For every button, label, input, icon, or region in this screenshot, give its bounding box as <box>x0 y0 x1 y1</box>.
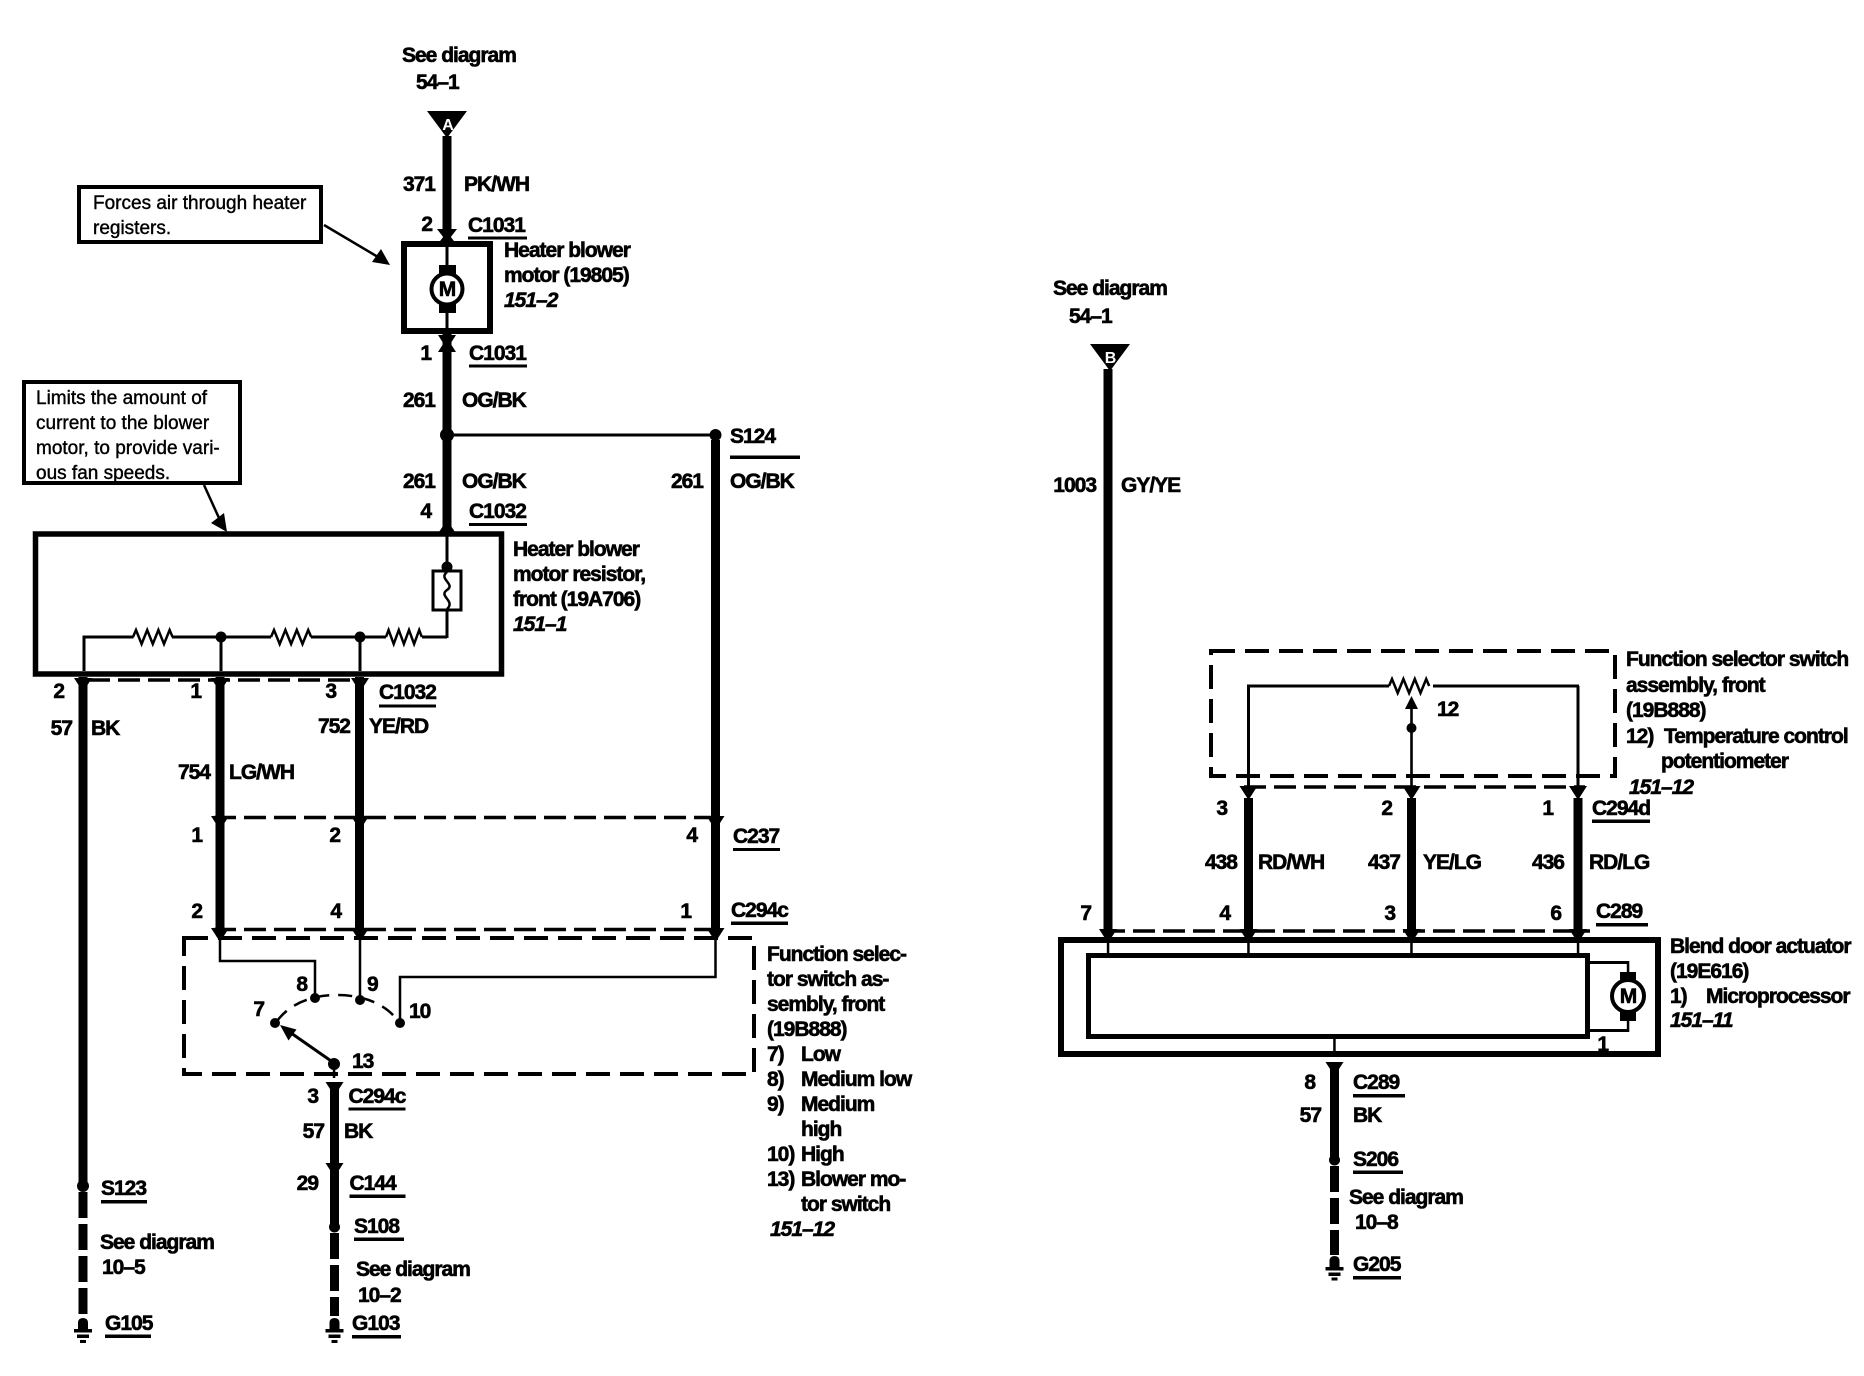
svg-text:(19E616): (19E616) <box>1670 960 1748 983</box>
svg-text:G105: G105 <box>105 1312 154 1335</box>
svg-text:Temperature control: Temperature control <box>1664 725 1848 748</box>
svg-text:C1032: C1032 <box>469 500 526 523</box>
label: C294d row pins 3,2,1 <box>1216 797 1650 823</box>
svg-text:151–2: 151–2 <box>504 289 559 312</box>
svg-text:OG/BK: OG/BK <box>730 470 795 493</box>
svg-text:10): 10) <box>767 1143 794 1166</box>
svg-text:3: 3 <box>1384 902 1395 925</box>
svg-text:S124: S124 <box>730 425 776 448</box>
svg-text:54–1: 54–1 <box>1069 305 1113 328</box>
svg-text:S123: S123 <box>101 1177 146 1200</box>
svg-text:12: 12 <box>1437 698 1459 721</box>
blend door actuator inner microprocessor box <box>1089 956 1588 1037</box>
connector arrows at C289 <box>1099 929 1587 943</box>
label: circuit 261 OG/BK right branch <box>671 470 795 493</box>
svg-text:1: 1 <box>191 824 203 847</box>
svg-text:motor (19805): motor (19805) <box>504 264 629 287</box>
svg-text:See diagram: See diagram <box>100 1231 214 1254</box>
svg-text:151–12: 151–12 <box>770 1218 835 1241</box>
wire 436 RD/LG <box>1574 798 1583 934</box>
connector arrows at C294c <box>211 928 725 942</box>
label: splice S108 <box>354 1215 404 1241</box>
potentiometer left leg <box>1247 686 1250 787</box>
wire 57 BK (actuator to S206) <box>1330 1066 1339 1160</box>
splice node S124 branch wire <box>447 434 715 437</box>
actuator input stubs <box>1107 943 1580 954</box>
dashed ground wire to G103 <box>330 1233 339 1316</box>
svg-text:YE/RD: YE/RD <box>369 715 429 738</box>
arrow from callout to motor box <box>324 225 390 265</box>
wire 752 YE/RD (resistor pin 3 down) <box>355 677 364 934</box>
svg-text:10–8: 10–8 <box>1355 1211 1399 1234</box>
wire 754 LG/WH (resistor pin 1 down) <box>216 677 225 934</box>
label: ground G103 <box>352 1312 401 1339</box>
actuator motor M2 symbol <box>1612 980 1644 1012</box>
label: switch contact numbers <box>253 973 430 1073</box>
svg-text:C144: C144 <box>350 1172 398 1195</box>
function selector switch assembly dashed box (right) <box>1211 651 1615 776</box>
function selector switch assembly dashed box (left) <box>184 938 754 1074</box>
potentiometer top wire segments <box>1247 685 1579 688</box>
svg-text:57: 57 <box>51 717 73 740</box>
label: circuit 261 OG/BK lower <box>403 470 527 493</box>
svg-text:C1032: C1032 <box>379 681 436 704</box>
svg-text:current to the blower: current to the blower <box>36 413 210 434</box>
resistor R1b <box>271 630 311 644</box>
svg-text:1003: 1003 <box>1053 474 1096 497</box>
svg-text:C294d: C294d <box>1592 797 1650 820</box>
svg-text:Heater blower: Heater blower <box>513 538 640 561</box>
switch contact 9 <box>355 995 365 1005</box>
label: splice S206 <box>1353 1148 1403 1174</box>
label: circuit 436 RD/LG <box>1532 851 1650 874</box>
svg-text:261: 261 <box>671 470 704 493</box>
label: circuit 57 BK center <box>303 1120 374 1143</box>
svg-text:assembly, front: assembly, front <box>1626 674 1766 697</box>
svg-text:G205: G205 <box>1353 1253 1402 1276</box>
svg-text:C1031: C1031 <box>469 342 527 365</box>
switch internal wire to contact 10 <box>400 940 716 1020</box>
svg-text:29: 29 <box>297 1172 319 1195</box>
label: see diagram 10-2 <box>356 1258 470 1307</box>
svg-text:2: 2 <box>421 213 432 236</box>
connector arrow at C144 <box>326 1163 344 1177</box>
svg-text:Limits the amount of: Limits the amount of <box>36 388 208 409</box>
svg-text:54–1: 54–1 <box>416 71 460 94</box>
svg-text:C294c: C294c <box>349 1085 407 1108</box>
switch contact 10 <box>395 1018 405 1028</box>
connector arrows at C294d <box>1240 786 1588 800</box>
label: circuit 754 LG/WH <box>178 761 294 784</box>
svg-text:GY/YE: GY/YE <box>1121 474 1181 497</box>
svg-text:2: 2 <box>1381 797 1392 820</box>
svg-text:C289: C289 <box>1353 1071 1400 1094</box>
svg-text:437: 437 <box>1368 851 1400 874</box>
switch internal wire to contact 9 <box>359 940 362 997</box>
ground G105 symbol <box>74 1318 92 1343</box>
thermal limiter fuse F1 <box>433 571 461 610</box>
svg-text:tor switch as-: tor switch as- <box>767 968 889 991</box>
actuator motor M2 wiring <box>1590 961 1636 1032</box>
node: wiper junction dot <box>1407 723 1417 733</box>
svg-text:C237: C237 <box>733 825 780 848</box>
connector arrow at C289 pin 8 <box>1326 1062 1344 1076</box>
switch contact 13 pivot <box>328 1058 340 1070</box>
label: C289 row pins 7,4,3,6 <box>1080 900 1648 927</box>
svg-text:OG/BK: OG/BK <box>462 470 527 493</box>
arrow from callout to resistor box <box>204 485 227 532</box>
svg-text:Function selector switch: Function selector switch <box>1626 648 1848 671</box>
svg-text:1: 1 <box>680 900 692 923</box>
potentiometer wiper arrow <box>1405 696 1418 787</box>
connector C237 dashed line <box>214 816 722 820</box>
svg-text:High: High <box>801 1143 844 1166</box>
splice S124 dot <box>710 429 722 441</box>
svg-text:436: 436 <box>1532 851 1564 874</box>
svg-text:PK/WH: PK/WH <box>464 173 529 196</box>
svg-text:8: 8 <box>1304 1071 1316 1094</box>
label: C1032 row pins 2,1,3 <box>53 680 436 708</box>
dashed ground wire to G105 <box>79 1192 88 1316</box>
svg-text:4: 4 <box>686 824 698 847</box>
svg-text:S206: S206 <box>1353 1148 1398 1171</box>
svg-text:M: M <box>1620 985 1637 1008</box>
switch internal wire to contact 8 <box>220 940 315 995</box>
wire 57 BK (switch 13 down to S108) <box>330 1086 339 1227</box>
svg-text:1: 1 <box>1597 1033 1609 1056</box>
connector arrows at C237 <box>211 816 725 830</box>
svg-text:C1031: C1031 <box>468 214 526 237</box>
label: see diagram 10-5 <box>100 1231 214 1279</box>
svg-text:Blower mo-: Blower mo- <box>801 1168 906 1191</box>
svg-text:1: 1 <box>1542 797 1554 820</box>
connector C289 dashed line <box>1103 929 1590 933</box>
svg-text:371: 371 <box>403 173 436 196</box>
svg-text:13): 13) <box>767 1168 794 1191</box>
splice S108 dot <box>329 1222 340 1233</box>
connector C294d dashed line <box>1244 785 1585 789</box>
svg-text:BK: BK <box>344 1120 373 1143</box>
wire from thermal limiter to resistor chain <box>446 609 449 638</box>
label: see diagram 54-1 (connector B) <box>1053 277 1167 328</box>
ground G205 symbol <box>1326 1256 1344 1281</box>
label: circuit 261 OG/BK upper <box>403 389 527 412</box>
svg-text:M: M <box>439 278 456 301</box>
label: ground G205 <box>1353 1253 1402 1280</box>
svg-text:high: high <box>801 1118 841 1141</box>
svg-text:4: 4 <box>330 900 342 923</box>
wire 13 stem inside switch box <box>333 1064 336 1078</box>
label: function selector switch assembly text block <box>767 943 913 1241</box>
svg-text:261: 261 <box>403 470 436 493</box>
svg-text:9): 9) <box>767 1093 784 1116</box>
svg-text:752: 752 <box>318 715 350 738</box>
label: function selector switch assembly text block (right) <box>1626 648 1848 799</box>
label: see diagram 54-1 (connector A) <box>402 44 516 94</box>
svg-text:See diagram: See diagram <box>402 44 516 67</box>
label: circuit 752 YE/RD <box>318 715 429 738</box>
heater blower motor M1 box <box>404 244 490 331</box>
connector arrows at C1032 pins 2,1,3 <box>74 678 369 692</box>
svg-text:Low: Low <box>801 1043 842 1066</box>
svg-text:10: 10 <box>409 1000 431 1023</box>
svg-text:7: 7 <box>1080 902 1091 925</box>
wire 57 BK (resistor pin 2 down to S123) <box>79 677 88 1188</box>
node: resistor tap 2 <box>355 632 366 643</box>
svg-text:YE/LG: YE/LG <box>1423 851 1482 874</box>
svg-text:potentiometer: potentiometer <box>1661 750 1789 773</box>
connector arrow at C294c pin 3 <box>326 1082 344 1096</box>
blend door actuator outer box <box>1061 940 1658 1054</box>
svg-text:Blend door actuator: Blend door actuator <box>1670 935 1851 958</box>
svg-text:Function selec-: Function selec- <box>767 943 907 966</box>
label: circuit 438 RD/WH <box>1205 851 1324 874</box>
label: pin 8 connector C289 <box>1304 1071 1405 1098</box>
svg-text:3: 3 <box>1216 797 1227 820</box>
svg-text:7): 7) <box>767 1043 784 1066</box>
svg-text:Forces air through heater: Forces air through heater <box>93 193 307 214</box>
svg-text:Medium: Medium <box>801 1093 875 1116</box>
svg-text:9: 9 <box>367 973 378 996</box>
svg-text:4: 4 <box>420 500 432 523</box>
svg-text:B: B <box>1105 350 1117 367</box>
svg-text:1: 1 <box>420 342 432 365</box>
svg-text:12): 12) <box>1626 725 1653 748</box>
svg-text:Medium low: Medium low <box>801 1068 913 1091</box>
wire 1003 GY/YE (B to blend door actuator) <box>1104 369 1113 932</box>
svg-text:G103: G103 <box>352 1312 400 1335</box>
label: heater blower motor (19805) 151-2 <box>504 239 631 312</box>
switch rotor lever SW1 <box>280 1025 334 1063</box>
label: C294c row pins 2,4,1 <box>191 899 789 925</box>
connector C1032 dashed line <box>88 678 364 682</box>
svg-text:438: 438 <box>1205 851 1238 874</box>
potentiometer right leg <box>1577 686 1580 787</box>
svg-text:See diagram: See diagram <box>356 1258 470 1281</box>
callout note: limits current to blower motor <box>24 382 240 484</box>
off-page connector B <box>1090 344 1130 371</box>
heater blower motor resistor R1 box <box>36 534 502 674</box>
wire 437 YE/LG <box>1407 798 1416 934</box>
svg-text:Heater blower: Heater blower <box>504 239 631 262</box>
wire 261 OG/BK (motor to resistor) <box>443 331 452 534</box>
dashed ground wire to G205 <box>1330 1166 1339 1255</box>
svg-text:3: 3 <box>325 680 336 703</box>
svg-text:front (19A706): front (19A706) <box>513 588 640 611</box>
svg-text:(19B888): (19B888) <box>1626 699 1706 722</box>
connector symbol C1031 pin 1 (mating arrows below motor) <box>438 335 456 352</box>
svg-text:tor switch: tor switch <box>801 1193 890 1216</box>
svg-text:BK: BK <box>91 717 120 740</box>
svg-text:2: 2 <box>191 900 202 923</box>
svg-text:4: 4 <box>1219 902 1231 925</box>
label: splice S123 <box>101 1177 147 1204</box>
svg-text:C289: C289 <box>1596 900 1643 923</box>
actuator output stub <box>1333 1039 1336 1057</box>
label: circuit 1003 GY/YE <box>1053 474 1181 497</box>
thermal limiter feed wire <box>446 536 449 568</box>
junction dot at motor feed <box>440 428 454 442</box>
label: circuit 57 BK right <box>1300 1104 1383 1127</box>
svg-text:1): 1) <box>1670 985 1687 1008</box>
svg-text:See diagram: See diagram <box>1053 277 1167 300</box>
svg-text:RD/LG: RD/LG <box>1589 851 1650 874</box>
svg-text:motor, to provide vari-: motor, to provide vari- <box>36 438 220 459</box>
svg-text:1: 1 <box>190 680 202 703</box>
label: pin 29 connector C144 <box>297 1172 406 1198</box>
resistor R1a <box>133 630 173 644</box>
node: resistor tap 1 <box>216 632 227 643</box>
connector symbol C1031 pin 2 (mating arrows) <box>437 229 457 245</box>
label: pin 2 connector C1031 <box>421 213 527 240</box>
label: pin 1 connector C1031 <box>420 342 527 368</box>
svg-text:C294c: C294c <box>731 899 789 922</box>
svg-text:2: 2 <box>53 680 64 703</box>
svg-text:754: 754 <box>178 761 211 784</box>
label: blend door actuator (19E616) 151-11 <box>1670 935 1851 1032</box>
svg-text:2: 2 <box>329 824 340 847</box>
potentiometer R2 (temperature control) <box>1389 679 1429 693</box>
svg-text:151–1: 151–1 <box>513 613 567 636</box>
svg-text:RD/WH: RD/WH <box>1258 851 1324 874</box>
svg-text:(19B888): (19B888) <box>767 1018 847 1041</box>
wire 261 OG/BK right branch (S124 down) <box>711 440 720 934</box>
svg-text:57: 57 <box>1300 1104 1322 1127</box>
svg-text:13: 13 <box>352 1050 374 1073</box>
svg-text:OG/BK: OG/BK <box>462 389 527 412</box>
svg-text:151–12: 151–12 <box>1629 776 1694 799</box>
off-page connector A <box>427 111 467 138</box>
svg-text:S108: S108 <box>354 1215 400 1238</box>
label: pin 3 connector C294c <box>307 1085 406 1111</box>
label: circuit 371 PK/WH <box>403 173 529 196</box>
svg-text:Microprocessor: Microprocessor <box>1706 985 1850 1008</box>
svg-text:LG/WH: LG/WH <box>229 761 294 784</box>
svg-text:8): 8) <box>767 1068 784 1091</box>
svg-text:sembly, front: sembly, front <box>767 993 885 1016</box>
switch contact 8 <box>310 993 320 1003</box>
node: thermal limiter top junction <box>442 562 453 573</box>
svg-text:BK: BK <box>1353 1104 1382 1127</box>
label: pin 4 connector C1032 <box>420 500 527 526</box>
svg-text:A: A <box>442 117 454 134</box>
connector symbol C1032 pin 4 (arrow into resistor) <box>437 520 457 535</box>
svg-text:registers.: registers. <box>93 218 171 239</box>
svg-text:3: 3 <box>307 1085 318 1108</box>
svg-text:See diagram: See diagram <box>1349 1186 1463 1209</box>
resistor chain wire segments <box>83 636 448 639</box>
ground G103 symbol <box>326 1318 344 1343</box>
label: splice S124 <box>730 425 800 459</box>
connector C294c dashed line <box>214 928 722 932</box>
label: C237 row pins 1,2,4 <box>191 824 780 851</box>
svg-text:10–2: 10–2 <box>358 1284 401 1307</box>
wire 438 RD/WH <box>1244 798 1253 934</box>
resistor internal drop wires <box>83 637 362 671</box>
label: circuit 57 BK left <box>51 717 121 740</box>
svg-text:ous fan speeds.: ous fan speeds. <box>36 463 170 484</box>
label: heater blower motor resistor front (19A706) 151-1 <box>513 538 645 636</box>
switch contact arc (dashed) <box>277 995 398 1021</box>
svg-text:151–11: 151–11 <box>1670 1009 1733 1032</box>
switch contact 7 <box>270 1018 280 1028</box>
svg-text:motor resistor,: motor resistor, <box>513 563 645 586</box>
svg-text:7: 7 <box>253 998 264 1021</box>
splice S206 dot <box>1329 1155 1340 1166</box>
svg-text:6: 6 <box>1550 902 1561 925</box>
callout note: forces air through heater registers <box>79 187 321 242</box>
label: see diagram 10-8 <box>1349 1186 1463 1234</box>
label: circuit 437 YE/LG <box>1368 851 1482 874</box>
svg-text:10–5: 10–5 <box>102 1256 146 1279</box>
resistor R1c <box>386 630 422 644</box>
svg-text:261: 261 <box>403 389 436 412</box>
label: ground G105 <box>105 1312 154 1338</box>
wire 371 PK/WH (A to heater blower motor) <box>443 136 452 232</box>
motor M1 symbol <box>432 244 463 332</box>
svg-text:8: 8 <box>296 973 308 996</box>
splice S123 dot <box>77 1180 89 1192</box>
svg-text:57: 57 <box>303 1120 325 1143</box>
